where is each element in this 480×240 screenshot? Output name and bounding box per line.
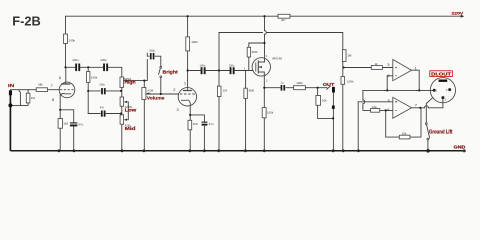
svg-text:1M: 1M <box>223 89 228 93</box>
svg-text:100k: 100k <box>191 40 198 44</box>
svg-text:100n: 100n <box>99 82 105 86</box>
svg-text:IN: IN <box>8 83 15 88</box>
svg-text:GND: GND <box>454 145 467 150</box>
svg-text:10k: 10k <box>322 99 327 103</box>
svg-text:3M0: 3M0 <box>252 50 258 54</box>
svg-text:100k: 100k <box>69 39 76 43</box>
svg-text:High: High <box>124 80 136 85</box>
svg-text:220V: 220V <box>452 11 464 16</box>
svg-text:47u: 47u <box>209 122 214 126</box>
svg-text:100k: 100k <box>347 79 354 83</box>
svg-text:Low: Low <box>125 108 137 113</box>
svg-text:100p: 100p <box>149 49 155 53</box>
svg-text:1k5: 1k5 <box>193 122 198 126</box>
svg-text:Mid: Mid <box>125 126 136 131</box>
svg-text:1M: 1M <box>347 53 352 57</box>
svg-text:3M0: 3M0 <box>248 89 254 93</box>
svg-text:Bright: Bright <box>163 69 179 75</box>
svg-text:100n: 100n <box>72 58 79 62</box>
svg-text:Volume: Volume <box>147 96 165 102</box>
svg-text:4k7: 4k7 <box>281 18 286 22</box>
svg-text:A1M: A1M <box>147 89 153 93</box>
svg-text:68k: 68k <box>38 82 43 86</box>
svg-text:100n: 100n <box>229 63 235 67</box>
svg-text:10k: 10k <box>402 131 407 135</box>
svg-text:IRF140: IRF140 <box>272 57 282 61</box>
svg-text:47n: 47n <box>100 105 105 109</box>
svg-text:220p: 220p <box>100 58 107 62</box>
svg-text:1u: 1u <box>280 81 284 85</box>
svg-text:100k: 100k <box>267 110 274 114</box>
svg-text:100n: 100n <box>200 63 206 67</box>
svg-text:10k: 10k <box>372 105 377 109</box>
svg-text:47u: 47u <box>78 123 83 127</box>
svg-text:1M: 1M <box>31 96 36 100</box>
svg-text:100k: 100k <box>296 81 303 85</box>
svg-text:100k: 100k <box>91 76 98 80</box>
svg-text:F-2B: F-2B <box>12 13 40 28</box>
svg-text:DI.OUT: DI.OUT <box>431 72 451 77</box>
svg-text:1k5: 1k5 <box>63 122 68 126</box>
svg-text:OUT: OUT <box>323 82 335 87</box>
svg-text:Ground Lift: Ground Lift <box>429 130 453 136</box>
